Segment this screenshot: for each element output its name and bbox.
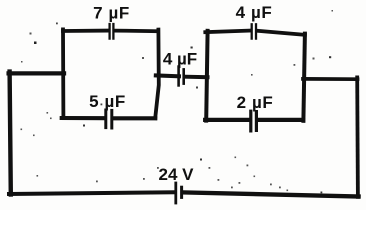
wire: middle link left segment <box>156 73 179 78</box>
wire: bottom left segment <box>9 192 174 194</box>
wire: left block right side <box>155 30 159 119</box>
wire: middle link right segment <box>186 75 208 80</box>
svg-text:5 µF: 5 µF <box>89 92 126 111</box>
wire: outer right vertical <box>355 77 359 196</box>
wire: right block top-right segment <box>257 31 305 35</box>
wire: left block top-right segment <box>115 29 158 33</box>
svg-text:7 µF: 7 µF <box>93 3 130 22</box>
capacitor C-2uF plates <box>251 111 257 131</box>
wire: right block left side <box>206 31 207 121</box>
wire: left block bottom-right segment <box>113 116 155 120</box>
battery B1 long plate <box>174 183 177 203</box>
wire: outer left vertical <box>10 72 11 195</box>
svg-text:24 V: 24 V <box>159 165 195 184</box>
wire: bottom right segment <box>183 192 358 196</box>
wire: right block top-left segment <box>205 31 250 33</box>
wire: stub from left block to outer loop <box>9 71 64 75</box>
svg-text:4 µF: 4 µF <box>236 3 273 22</box>
wire: right block bottom-right segment <box>258 118 303 122</box>
wire: right block bottom-left segment <box>205 118 249 122</box>
wire: left block top-left segment <box>63 29 108 33</box>
battery B1 short plate <box>180 187 183 197</box>
svg-text:4 µF: 4 µF <box>163 49 197 68</box>
wire: left block bottom-left segment <box>62 116 105 120</box>
wire: stub from right block to outer loop <box>303 77 358 81</box>
capacitor C-5uF plates <box>106 110 112 128</box>
wire: left block left side <box>61 29 65 118</box>
wire: right block right side <box>303 34 305 121</box>
capacitor C-4uF middle plates <box>179 67 184 86</box>
capacitor C-7uF plates <box>110 24 114 39</box>
scan noise specks <box>21 10 334 193</box>
svg-text:2 µF: 2 µF <box>237 93 274 112</box>
capacitor C-4uF top plates <box>252 24 256 38</box>
